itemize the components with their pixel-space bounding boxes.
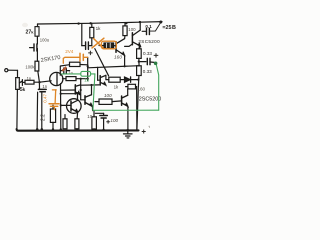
svg-text:10: 10 (87, 114, 92, 119)
svg-text:100: 100 (104, 93, 112, 98)
svg-text:0.33: 0.33 (143, 51, 152, 56)
svg-text:2V4: 2V4 (65, 49, 74, 54)
svg-text:160: 160 (114, 54, 122, 60)
svg-text:100u: 100u (40, 37, 50, 42)
svg-text:0.33: 0.33 (143, 69, 152, 74)
svg-text:=25B: =25B (162, 25, 176, 31)
svg-text:100: 100 (128, 27, 136, 32)
svg-text:1k: 1k (84, 77, 90, 82)
svg-text:0.1: 0.1 (145, 24, 152, 29)
svg-text:160: 160 (137, 86, 145, 91)
svg-text:2SC5200: 2SC5200 (139, 97, 161, 103)
svg-text:0.47: 0.47 (43, 93, 48, 102)
svg-text:2SC5200: 2SC5200 (138, 39, 160, 44)
svg-text:1k: 1k (96, 26, 102, 31)
svg-text:1k: 1k (114, 84, 119, 89)
svg-text:2.2: 2.2 (41, 114, 47, 121)
svg-text:1n: 1n (42, 84, 47, 89)
svg-text:100k: 100k (25, 64, 35, 69)
svg-text:1n: 1n (27, 76, 32, 81)
svg-text:100: 100 (110, 118, 118, 123)
